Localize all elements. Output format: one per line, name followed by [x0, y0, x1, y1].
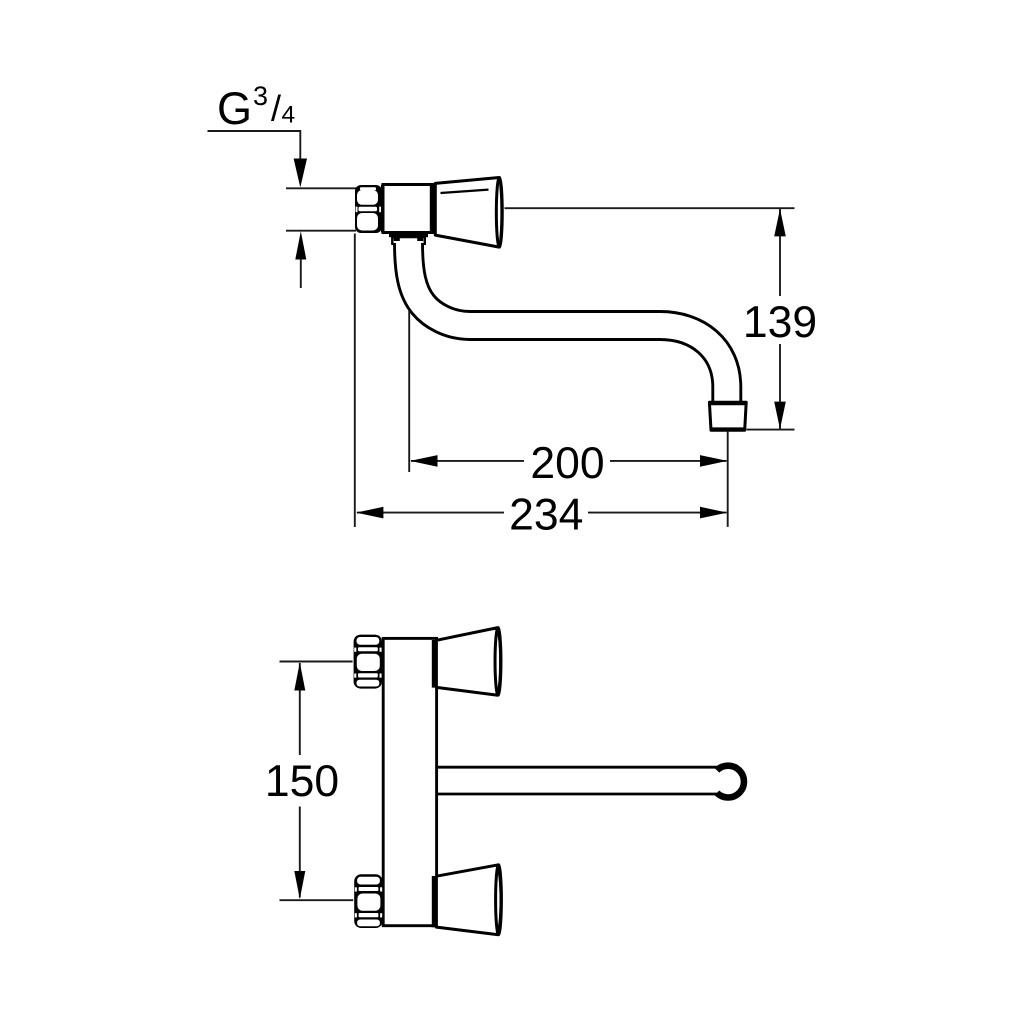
dimension 234 line right: [588, 512, 727, 514]
dimension 139 line upper: [779, 209, 781, 296]
top hex nut front view: [354, 635, 382, 689]
dimension 139 arrow down: [774, 402, 786, 430]
extension line below aerator: [727, 432, 729, 527]
leader line from G3/4: [208, 131, 301, 159]
dimension 234 arrow right: [700, 507, 727, 519]
handle cone side view: [435, 178, 499, 248]
aerator thick bottom edge: [711, 427, 745, 431]
dimension 150 arrow up: [294, 663, 305, 691]
svg-text:200: 200: [530, 439, 604, 488]
svg-text:139: 139: [743, 298, 817, 347]
arrow up tail: [300, 259, 302, 288]
dimension 150 line upper: [299, 663, 301, 755]
hex nut side view: [355, 185, 382, 233]
spout tube (S-curve): [409, 242, 727, 404]
handle end ellipse fill: [496, 177, 502, 247]
svg-text:3: 3: [253, 81, 268, 111]
label G 3/4: [217, 81, 295, 134]
extension line tube to 200: [408, 311, 410, 472]
spout tube front view top line: [437, 766, 722, 769]
body thick right edge: [430, 185, 436, 233]
extension line top connection: [280, 661, 353, 663]
extension line from handle to 139: [505, 207, 795, 209]
body column front view: [383, 638, 436, 925]
spout collar: [392, 237, 425, 246]
extension line nut to 234: [354, 234, 356, 528]
dimension 200 line left: [411, 460, 524, 462]
svg-text:4: 4: [282, 102, 296, 129]
spout end cap arc: [717, 766, 744, 798]
svg-text:/: /: [271, 88, 281, 129]
dimension 234 arrow left: [356, 507, 383, 519]
svg-text:234: 234: [509, 491, 583, 540]
dimension 150 arrow down: [294, 871, 305, 899]
body thick left edge: [381, 185, 385, 233]
aerator: [709, 402, 746, 430]
aerator thick top edge: [709, 401, 746, 405]
extension line bottom of inlet: [286, 230, 356, 232]
extension line from aerator to 139: [747, 429, 795, 431]
handle accent line: [441, 190, 489, 193]
dimension 234 line left: [357, 512, 504, 514]
svg-text:150: 150: [265, 757, 339, 806]
valve body side view: [383, 185, 433, 233]
svg-text:G: G: [217, 83, 252, 134]
bottom hex nut front view: [354, 874, 382, 928]
dimension 150 line lower: [299, 807, 301, 898]
collar right block: [417, 237, 423, 241]
handle end right arc: [499, 178, 502, 248]
spout tube front view bottom line: [437, 793, 722, 796]
dimension 139 line lower: [779, 344, 781, 429]
dimension 200 line right: [610, 460, 727, 462]
bottom handle cone front view: [432, 865, 502, 935]
extension line bottom connection: [280, 899, 354, 901]
extension line top of inlet: [286, 187, 356, 189]
dimension 200 arrow left: [410, 455, 437, 467]
collar left block: [394, 237, 400, 241]
leader arrow down: [294, 159, 307, 188]
arrow up to inlet bottom: [295, 231, 306, 259]
spout fitting band: [389, 233, 428, 237]
dimension 139 arrow up: [774, 209, 786, 237]
dimension 200 arrow right: [700, 455, 727, 467]
top handle cone front view: [432, 628, 501, 696]
